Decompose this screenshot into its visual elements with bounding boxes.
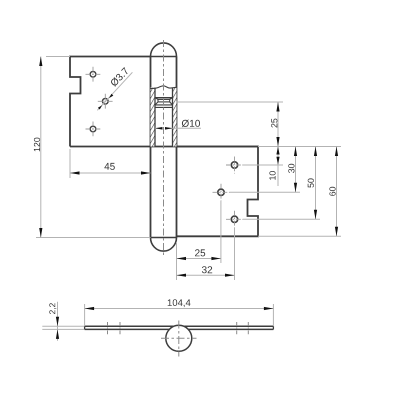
barrel centerline [163, 40, 165, 256]
hole R3 crosshair [226, 211, 243, 228]
side view plate left cap [84, 326, 86, 329]
dim Ø10 text [182, 120, 200, 128]
pin flare right [170, 102, 173, 105]
dim 2,2 arrow top [56, 317, 59, 327]
hole R3 bottom [231, 216, 237, 222]
dim 10 line [277, 147, 279, 187]
side view hole tick 1 [107, 322, 109, 334]
dim 104,4 arrow left [85, 307, 95, 310]
dim Ø3.7 leader [97, 72, 132, 110]
dim 30 arrow top [294, 147, 297, 157]
side view plate bottom line right part [188, 328, 273, 330]
hole L1 top-left [90, 72, 96, 78]
dim 25 right line [277, 102, 279, 147]
dim 32 arrow left [177, 274, 187, 277]
dim 32 text [202, 266, 212, 273]
dim 45 text [104, 163, 114, 170]
dim Ø3.7 arrow lower [98, 105, 102, 109]
ext line plate bottom right [258, 235, 341, 237]
dim Ø10 line [155, 127, 162, 129]
hole R1 top [231, 162, 237, 168]
dim 104,4 extension right [272, 304, 274, 326]
dim 45 extension left [69, 149, 71, 178]
dim 25 right text [271, 119, 277, 128]
side view circle centerline vertical [178, 321, 180, 357]
bore inner left line [154, 88, 156, 147]
dim 10 text [269, 171, 275, 180]
side view plate top line right part [184, 325, 273, 327]
dim 45 line [70, 172, 151, 174]
barrel bottom dome [151, 238, 177, 252]
dim 60 arrow bottom [335, 227, 338, 237]
pin head line 3 [158, 101, 170, 103]
dim 120 line [40, 57, 42, 238]
left leaf outline [70, 57, 151, 147]
dim 2,2 extension bottom [42, 328, 84, 330]
barrel right edge [176, 57, 178, 238]
dim 2,2 arrow bottom [56, 329, 59, 339]
shared middle edge line across leaves and barrel [70, 146, 258, 148]
dim 60 arrow top [335, 147, 338, 157]
pin head line 1 [155, 97, 173, 99]
right leaf outline [177, 147, 259, 237]
hole L3 bottom-left [90, 126, 96, 132]
dim 120 arrow top [39, 57, 42, 67]
side view hole tick 4 [247, 322, 249, 334]
dim 2,2 extension top [42, 325, 84, 327]
pin neck left [157, 99, 159, 102]
side view plate bottom line left part [85, 328, 170, 330]
side view hole tick 2 [119, 322, 121, 334]
dim 104,4 arrow right [264, 307, 274, 310]
pin head line 4 [155, 104, 173, 106]
ext line hole R2 right [230, 191, 301, 193]
dim 25 bottom arrow right [211, 257, 221, 260]
barrel top tangent line [151, 56, 177, 58]
hole L2 crosshair [98, 94, 113, 109]
dim 30 line [295, 147, 297, 193]
break wavy line [151, 86, 177, 89]
dim Ø3.7 arrow upper [109, 94, 113, 98]
dim Ø10 arrow right [165, 127, 173, 130]
dim 60 line [336, 147, 338, 237]
hole L2 middle (Ø3.7) [103, 99, 109, 105]
dim 10 arrow top [276, 147, 279, 155]
bore inner right line [172, 88, 174, 147]
dim 32 arrow right [225, 274, 235, 277]
dim 25 right arrow bottom [276, 137, 279, 147]
dim 104,4 line [85, 308, 274, 310]
ext line hole R3 right [243, 218, 320, 220]
dim 60 text [329, 187, 335, 196]
dim 25 right arrow top [276, 102, 279, 112]
dim 30 text [288, 164, 294, 173]
barrel bottom tangent line [151, 237, 177, 239]
side view barrel circle [166, 325, 192, 351]
dim 50 text [308, 178, 314, 187]
dim 30 arrow bottom [294, 183, 297, 193]
hole R2 crosshair [213, 184, 230, 201]
dim 50 arrow bottom [314, 210, 317, 220]
ext line barrel right bottom [176, 242, 178, 280]
barrel top dome [151, 43, 177, 57]
dim 50 arrow top [314, 147, 317, 157]
side view hole tick 3 [236, 322, 238, 334]
pin head line 5 [155, 106, 173, 108]
pin head chamfer right [170, 98, 173, 100]
hole R1 crosshair [226, 157, 243, 174]
dim 45 arrow right [141, 171, 151, 174]
dim 120 arrow bottom [39, 228, 42, 238]
dim 25 bottom text [195, 249, 205, 256]
barrel left edge [150, 57, 152, 238]
dim 2,2 line [57, 302, 59, 341]
pin neck right [169, 99, 171, 102]
ext line hole R2 bottom [220, 201, 222, 263]
pin head chamfer left [155, 98, 158, 100]
dim 120 extension top [46, 56, 70, 58]
dim 25 bottom arrow left [177, 257, 187, 260]
dim 25 bottom line [177, 258, 221, 260]
dim Ø3.7 text [110, 67, 130, 87]
hole L1 crosshair [86, 67, 101, 82]
side view plate top line left part [85, 325, 174, 327]
dim 10 arrow bottom [276, 157, 279, 165]
dim 104,4 text [168, 299, 191, 307]
ext line hole R3 bottom [234, 228, 236, 280]
dim 120 extension bottom [36, 237, 151, 239]
dim 120 text [34, 138, 40, 152]
barrel wall hatching right [173, 88, 177, 147]
ext line pin top (25 ref) [177, 101, 284, 103]
dim 32 line [177, 274, 235, 276]
dim Ø10 arrow left [155, 127, 163, 130]
side view circle centerline horizontal [161, 337, 197, 339]
hole R2 middle [218, 189, 224, 195]
dim 50 line [315, 147, 317, 220]
ext line plate top right [258, 146, 341, 148]
pin flare left [155, 102, 158, 105]
barrel wall hatching left [151, 88, 156, 147]
dim 45 arrow left [70, 171, 80, 174]
side view plate right cap [272, 326, 274, 329]
dim 2,2 text [49, 303, 56, 314]
hole L3 crosshair [86, 122, 101, 137]
dim 104,4 extension left [84, 304, 86, 326]
pin head line 2 [158, 98, 170, 100]
ext line hole R1 right [243, 164, 283, 166]
